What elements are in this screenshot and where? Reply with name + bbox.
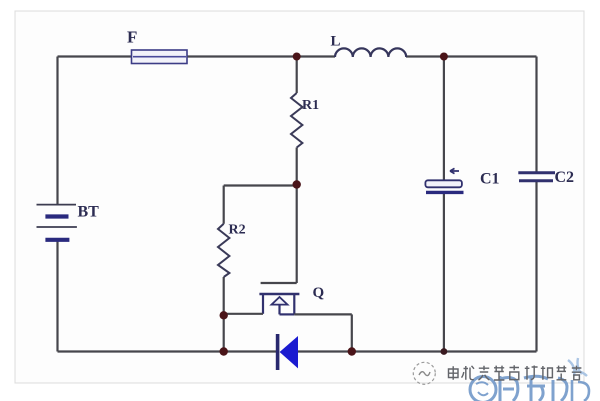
node: bottom drain junction [348,347,356,355]
wire: R1 branch vertical [296,57,298,185]
svg-text:BT: BT [78,204,100,221]
body arrow [272,297,288,305]
body-drain link [280,313,295,315]
watermark logo circle [413,362,435,384]
svg-text:F: F [127,28,137,47]
svg-text:R1: R1 [302,98,319,113]
svg-text:R2: R2 [229,223,246,238]
watermark blue glyphs [470,358,589,401]
capacitor C1 (polarized) [425,168,463,192]
wire: bottom rail [58,350,537,352]
wire: R2 branch vertical [223,186,225,316]
wire: left rail [56,57,58,352]
node: bottom left junction [220,347,228,355]
source stub (left) [262,294,264,314]
svg-text:L: L [331,34,341,50]
drain stub (right) [293,294,295,314]
wire: source to R2 node [224,313,263,315]
gate bar [261,282,297,284]
node: top R1 junction [293,53,301,61]
watermark gray text [449,365,582,380]
body stub (middle) [278,305,280,315]
resistor R1 [291,93,302,148]
wire: C1 branch vertical [443,57,445,352]
fuse F [132,50,188,64]
svg-text:C1: C1 [480,171,500,188]
wire: R2 node down to bottom rail [223,315,225,351]
svg-text:Q: Q [313,285,325,301]
node: top C1 junction [440,53,448,61]
wire: top rail [58,55,537,57]
wire: gate node to R2 (horizontal) [224,184,297,186]
diode D [276,334,298,370]
wire: right rail (C2 branch) [535,57,537,352]
battery BT [37,205,77,240]
resistor R2 [218,224,229,277]
transistor Q (MOSFET) [259,283,299,314]
wire: drain to bottom rail [294,314,352,351]
svg-text:C2: C2 [555,169,575,186]
wire: gate lead vertical [296,185,298,284]
node: gate divider junction [293,180,301,188]
node: bottom C1 junction [441,348,448,355]
capacitor C2 [518,173,555,181]
channel bar [259,293,299,296]
inductor L [335,48,406,57]
node: source/R2 junction [220,311,228,319]
